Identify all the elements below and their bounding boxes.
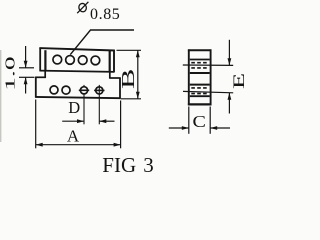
right lower edge — [119, 78, 121, 99]
dimension B lines — [117, 50, 142, 99]
right inner wall bar — [109, 51, 111, 72]
hidden dashed row 1 — [191, 62, 208, 64]
E extension line lower (crosses side view) — [183, 91, 233, 92]
E extension line upper (crosses side view) — [183, 64, 233, 66]
svg-text:0.85: 0.85 — [90, 6, 120, 23]
bottom row hole 2 — [62, 86, 70, 94]
internal line 1 — [190, 59, 210, 61]
left lower edge — [35, 77, 37, 98]
crossed hole 4 — [94, 87, 104, 94]
bottom row hole 1 — [50, 86, 58, 94]
top row hole 4 — [91, 56, 100, 65]
dimension D lines — [62, 119, 114, 123]
top row hole 3 — [78, 56, 87, 65]
dimension A lines — [36, 100, 121, 149]
svg-text:3: 3 — [143, 153, 154, 177]
hidden dashed row 2 — [191, 67, 208, 69]
center line hole 3 / D extension left — [83, 85, 85, 87]
svg-text:D: D — [68, 98, 80, 117]
left upper edge — [39, 48, 41, 72]
top edge — [39, 48, 114, 50]
right notch bottom step — [109, 77, 120, 79]
diameter symbol — [77, 2, 88, 13]
svg-text:E: E — [230, 73, 247, 89]
svg-text:1.0: 1.0 — [3, 56, 18, 91]
internal line 3 — [190, 84, 210, 86]
dimension E lines — [228, 40, 232, 114]
dimension 1.0 lines — [19, 46, 34, 94]
internal line 2 — [190, 72, 210, 74]
left notch bottom step — [35, 76, 46, 78]
top row hole 2 — [66, 56, 75, 65]
crossed hole 3 — [79, 87, 89, 94]
center line hole 4 / D extension right — [98, 85, 100, 124]
division line — [40, 71, 115, 72]
svg-text:B: B — [119, 69, 138, 89]
left notch inner edge — [44, 71, 46, 78]
scan edge smudge — [0, 50, 1, 142]
side view body — [188, 49, 212, 105]
hidden dashed row 3 — [191, 87, 208, 89]
bottom edge — [35, 97, 120, 98]
svg-text:A: A — [67, 127, 80, 146]
hidden dashed row 4 — [191, 93, 208, 95]
top row hole 1 — [53, 55, 62, 64]
front view outline — [35, 48, 120, 99]
right notch inner edge — [109, 72, 111, 79]
left inner wall bar — [44, 50, 46, 71]
leader line for hole diameter — [70, 30, 134, 55]
right upper edge — [113, 50, 115, 72]
internal line 4 — [190, 95, 210, 97]
svg-text:C: C — [193, 112, 206, 131]
dimension C lines — [169, 107, 230, 134]
svg-text:FIG: FIG — [102, 153, 136, 177]
